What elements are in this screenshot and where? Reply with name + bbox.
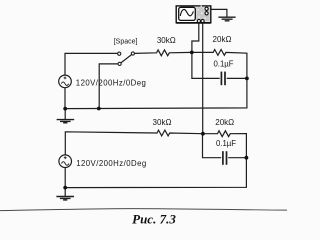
svg-text:120V/200Hz/0Deg: 120V/200Hz/0Deg bbox=[76, 79, 146, 88]
svg-text:30kΩ: 30kΩ bbox=[153, 118, 172, 127]
svg-text:30kΩ: 30kΩ bbox=[157, 36, 176, 45]
svg-text:120V/200Hz/0Deg: 120V/200Hz/0Deg bbox=[76, 159, 146, 168]
svg-text:Рис. 7.3: Рис. 7.3 bbox=[132, 211, 176, 226]
svg-text:[Space]: [Space] bbox=[114, 38, 138, 45]
svg-text:20kΩ: 20kΩ bbox=[215, 118, 234, 127]
svg-text:0.1µF: 0.1µF bbox=[216, 139, 236, 148]
svg-text:0.1µF: 0.1µF bbox=[213, 59, 233, 68]
svg-text:20kΩ: 20kΩ bbox=[213, 35, 232, 44]
